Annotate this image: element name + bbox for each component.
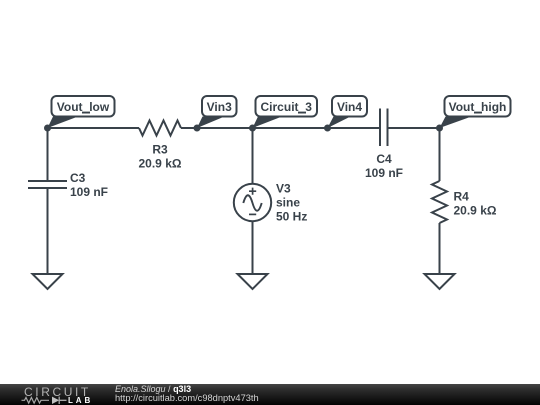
svg-text:20.9 kΩ: 20.9 kΩ xyxy=(454,204,497,218)
svg-text:50 Hz: 50 Hz xyxy=(276,210,307,224)
svg-text:C4: C4 xyxy=(376,152,392,166)
svg-text:R3: R3 xyxy=(152,143,168,157)
node flag underscore marks xyxy=(82,112,482,114)
wire left branch upper xyxy=(47,128,49,181)
footer logo diode symbol xyxy=(52,397,67,404)
node flag Vout_low xyxy=(48,96,115,128)
wire main right segment xyxy=(388,127,440,129)
wire main left segment xyxy=(48,127,140,129)
wire right branch upper xyxy=(439,128,441,181)
node flag Vin3 xyxy=(197,96,237,128)
svg-text:Vin4: Vin4 xyxy=(337,100,362,114)
wire right branch lower xyxy=(439,223,441,274)
wire middle branch lower xyxy=(252,221,254,274)
capacitor C3 xyxy=(28,181,67,188)
wire left branch lower xyxy=(47,188,49,274)
node Vin4 junction dot xyxy=(324,125,331,132)
wire middle branch upper xyxy=(252,128,254,184)
svg-text:R4: R4 xyxy=(454,190,470,204)
footer logo resistor symbol xyxy=(22,398,50,404)
ground left xyxy=(33,274,63,289)
svg-text:http://circuitlab.com/c98dnptv: http://circuitlab.com/c98dnptv473th xyxy=(115,393,259,403)
node Vout_high junction dot xyxy=(436,125,443,132)
node Vout_low junction dot xyxy=(44,125,51,132)
svg-text:Vin3: Vin3 xyxy=(207,100,232,114)
svg-text:V3: V3 xyxy=(276,182,291,196)
resistor R4 xyxy=(432,181,447,223)
capacitor C4 xyxy=(380,109,388,147)
ground middle xyxy=(238,274,268,289)
svg-text:109 nF: 109 nF xyxy=(70,185,108,199)
node flag Circuit_3 xyxy=(253,96,318,128)
footer bar xyxy=(0,384,540,405)
resistor R3 xyxy=(139,121,181,136)
ground right xyxy=(425,274,455,289)
svg-text:C3: C3 xyxy=(70,171,86,185)
svg-text:20.9 kΩ: 20.9 kΩ xyxy=(139,157,182,171)
node flag Vin4 xyxy=(328,96,368,128)
node flag Vout_high xyxy=(440,96,511,128)
svg-text:LAB: LAB xyxy=(68,396,93,405)
node Circuit_3 junction dot xyxy=(249,125,256,132)
node Vin3 junction dot xyxy=(194,125,201,132)
wire main middle segment xyxy=(181,127,380,129)
voltage source V3 xyxy=(234,184,271,221)
svg-text:sine: sine xyxy=(276,196,300,210)
svg-text:109 nF: 109 nF xyxy=(365,166,403,180)
